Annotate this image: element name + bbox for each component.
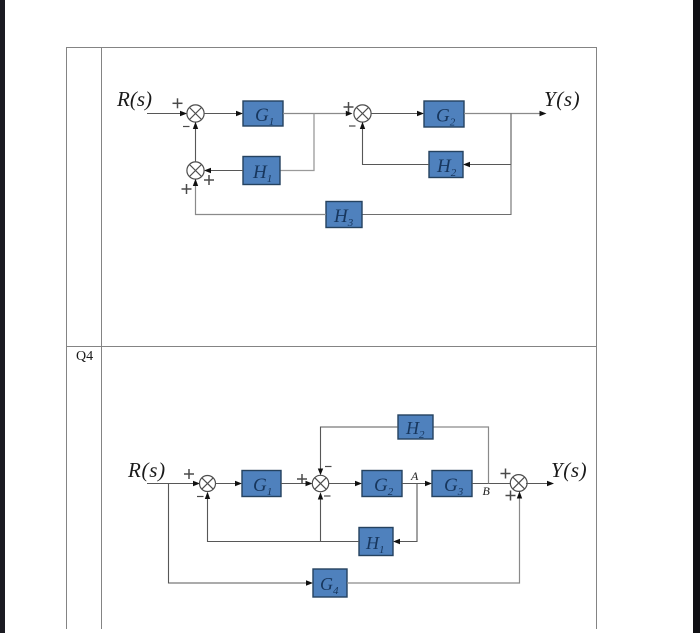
- wire S6 to Y(s) output: [526, 481, 554, 486]
- wire H2 output to S2 bottom: [360, 122, 429, 165]
- wire G2 to block G3: [402, 481, 432, 486]
- minus sign at S2 bottom input: [349, 125, 356, 127]
- svg-text:A: A: [410, 469, 419, 483]
- minus sign at S5 top input: [325, 466, 332, 468]
- node B label: [483, 484, 491, 498]
- wire H2 output to S5 top: [318, 427, 398, 475]
- wire junction H1 line up to S5 bottom: [318, 492, 323, 541]
- wire H1 output to S4 bottom: [205, 492, 359, 542]
- block H2 (bottom diagram): [398, 415, 433, 441]
- summer S3: [187, 162, 204, 179]
- wire G3 to summer S6: [472, 483, 511, 485]
- wire H1 to summer S3: [204, 168, 243, 173]
- wire G2 to Y(s) output: [464, 111, 547, 116]
- minus sign at S1 bottom input: [183, 126, 190, 128]
- plus sign at S4 left input: [184, 469, 194, 479]
- wire branch after G1 down to H1 input: [280, 114, 314, 171]
- block H2 (top diagram): [429, 152, 463, 180]
- wire branch down to H3 level: [362, 165, 511, 215]
- plus sign at S3 bottom input: [182, 184, 192, 194]
- wire R(s) to summer S4: [147, 481, 200, 486]
- svg-text:B: B: [483, 484, 491, 498]
- wire R(s) branch down to G4 input: [169, 484, 314, 586]
- plus sign at S6 bottom input: [506, 491, 516, 501]
- wire G1 to summer S5: [281, 481, 313, 486]
- plus sign at S6 left input: [501, 469, 511, 479]
- node R(s) input label (top diagram): [116, 87, 152, 111]
- wire branch at B up to H2: [433, 427, 489, 484]
- summer S1: [187, 105, 204, 122]
- wire G4 output to S6 bottom: [347, 491, 522, 583]
- node Y(s) output label (bottom diagram): [551, 458, 587, 482]
- plus sign at S3 right input: [204, 175, 214, 185]
- summer S6: [510, 475, 527, 492]
- minus sign at S5 bottom input: [324, 495, 331, 497]
- block H1 (bottom diagram): [359, 528, 393, 557]
- summer S2: [354, 105, 371, 122]
- node A label: [410, 469, 419, 483]
- node Y(s) output label (top diagram): [544, 87, 580, 111]
- wire S4 to block G1: [215, 481, 242, 486]
- plus sign at S5 left input: [297, 474, 307, 484]
- wire S1 to block G1: [204, 111, 243, 116]
- svg-text:Q4: Q4: [76, 349, 93, 364]
- wire S3 output up to S1: [193, 122, 198, 162]
- wire H3 output to S3 bottom: [193, 179, 326, 215]
- svg-text:Y(s): Y(s): [544, 87, 580, 111]
- summer S4: [200, 476, 216, 492]
- block G4 (bottom diagram): [313, 569, 347, 597]
- wire S2 to block G2: [371, 111, 424, 116]
- wire branch at A down to H1 input: [393, 484, 417, 545]
- plus sign at S2 left input: [344, 102, 354, 112]
- block H3 (top diagram): [326, 202, 362, 230]
- block G1 (top diagram): [243, 101, 283, 128]
- block H1 (top diagram): [243, 157, 280, 186]
- plus sign at S1 left input: [173, 98, 183, 108]
- block G3 (bottom diagram): [432, 471, 472, 499]
- block G2 (bottom diagram): [362, 471, 402, 499]
- block G1 (bottom diagram): [242, 471, 281, 499]
- wire branch after G2 down to H2 input: [510, 114, 512, 165]
- minus sign at S4 bottom input: [197, 496, 204, 498]
- svg-text:R(s): R(s): [127, 458, 166, 482]
- wire G1 to summer S2: [283, 111, 353, 116]
- node R(s) input label (bottom diagram): [127, 458, 166, 482]
- summer S5: [312, 475, 328, 491]
- svg-text:R(s): R(s): [116, 87, 152, 111]
- block G2 (top diagram): [424, 101, 464, 129]
- wire S5 to block G2: [329, 481, 363, 486]
- wire into H2 with arrow: [463, 162, 511, 167]
- wire R(s) to summer S1: [147, 111, 187, 116]
- svg-text:Y(s): Y(s): [551, 458, 587, 482]
- question label Q4: [76, 349, 93, 364]
